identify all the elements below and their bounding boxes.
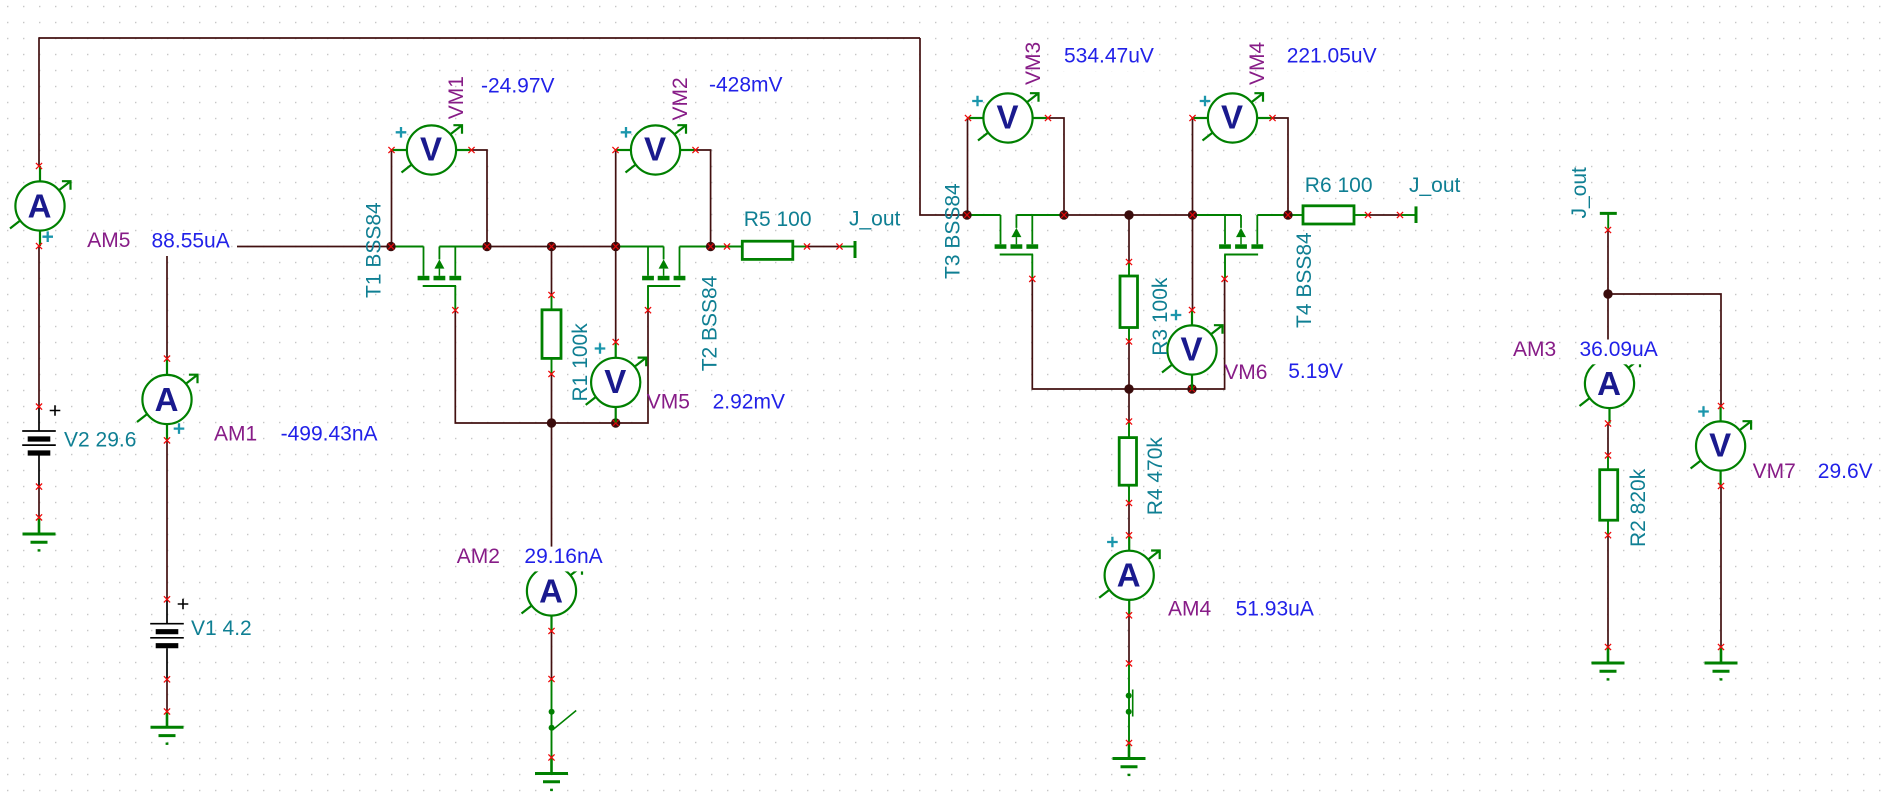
svg-text:221.05uV: 221.05uV	[1287, 45, 1377, 68]
svg-text:AM2: AM2	[457, 545, 500, 568]
svg-text:R1 100k: R1 100k	[569, 323, 592, 402]
svg-text:36.09uA: 36.09uA	[1580, 338, 1658, 361]
svg-text:VM2: VM2	[669, 77, 692, 120]
svg-text:R5 100: R5 100	[744, 208, 812, 231]
svg-text:R2 820k: R2 820k	[1627, 468, 1650, 547]
svg-text:J_out: J_out	[1568, 167, 1591, 219]
svg-text:-499.43nA: -499.43nA	[281, 422, 378, 445]
svg-text:V1 4.2: V1 4.2	[191, 617, 252, 640]
svg-text:-428mV: -428mV	[709, 74, 783, 97]
svg-text:29.16nA: 29.16nA	[524, 545, 602, 568]
svg-text:V: V	[420, 131, 442, 168]
svg-text:V: V	[604, 363, 626, 400]
svg-text:VM3: VM3	[1022, 42, 1045, 85]
svg-text:A: A	[1117, 557, 1141, 594]
svg-text:J_out: J_out	[1409, 174, 1461, 197]
svg-text:29.6V: 29.6V	[1818, 460, 1873, 483]
svg-text:T3 BSS84: T3 BSS84	[942, 183, 965, 279]
svg-text:T2 BSS84: T2 BSS84	[699, 275, 722, 371]
svg-text:AM5: AM5	[87, 229, 130, 252]
svg-text:VM1: VM1	[445, 76, 468, 119]
svg-text:AM1: AM1	[214, 422, 257, 445]
svg-text:V: V	[1709, 427, 1731, 464]
svg-text:VM6: VM6	[1224, 361, 1267, 384]
svg-text:VM5: VM5	[647, 390, 690, 413]
svg-text:V: V	[644, 131, 666, 168]
svg-text:R3 100k: R3 100k	[1149, 277, 1172, 356]
svg-text:VM7: VM7	[1753, 460, 1796, 483]
svg-text:534.47uV: 534.47uV	[1064, 45, 1154, 68]
svg-text:V: V	[996, 99, 1018, 136]
svg-text:V: V	[1180, 331, 1202, 368]
svg-text:V2 29.6: V2 29.6	[64, 428, 136, 451]
svg-text:T4 BSS84: T4 BSS84	[1293, 232, 1316, 328]
svg-text:A: A	[1597, 365, 1621, 402]
svg-text:AM3: AM3	[1513, 338, 1556, 361]
svg-text:5.19V: 5.19V	[1288, 360, 1343, 383]
svg-text:VM4: VM4	[1246, 42, 1269, 86]
svg-text:88.55uA: 88.55uA	[152, 230, 230, 253]
svg-text:AM4: AM4	[1168, 598, 1212, 621]
svg-text:R4 470k: R4 470k	[1144, 437, 1167, 516]
svg-text:V: V	[1221, 99, 1243, 136]
svg-text:-24.97V: -24.97V	[481, 74, 555, 97]
svg-text:A: A	[155, 381, 179, 418]
svg-text:2.92mV: 2.92mV	[713, 390, 785, 413]
svg-text:J_out: J_out	[849, 208, 901, 231]
svg-text:51.93uA: 51.93uA	[1236, 598, 1314, 621]
svg-text:R6 100: R6 100	[1305, 174, 1373, 197]
svg-text:A: A	[539, 572, 563, 609]
svg-text:T1 BSS84: T1 BSS84	[363, 202, 386, 298]
svg-text:A: A	[28, 187, 52, 224]
